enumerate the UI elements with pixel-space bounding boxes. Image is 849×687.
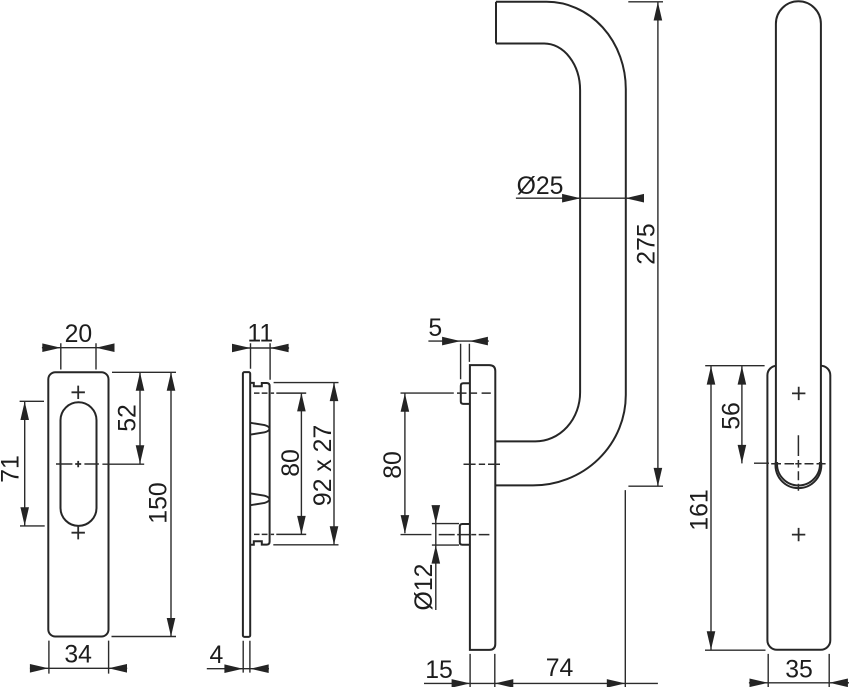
dim 150 / 52 top extension xyxy=(112,371,176,373)
svg-text:20: 20 xyxy=(65,321,93,348)
dim 161/56 top extension xyxy=(705,365,764,367)
arrows dim 34 xyxy=(30,664,49,673)
svg-text:52: 52 xyxy=(115,404,142,432)
dim 5 extension lines xyxy=(461,344,470,379)
arrows dim 275 xyxy=(654,2,663,21)
centerline tick middle (view 3) xyxy=(464,463,501,465)
svg-text:4: 4 xyxy=(210,642,224,669)
screw centerline dashes lower (view 2) xyxy=(254,533,306,535)
arrows dim 11 xyxy=(232,344,251,353)
arrows dim 161 xyxy=(707,366,716,385)
dim 34 dimension line xyxy=(30,667,127,669)
screw cross bottom (view 1) xyxy=(72,526,85,539)
dim 56 bottom extension xyxy=(754,462,769,464)
dim O25 dimension line xyxy=(516,197,643,199)
arrows dim 80 view2 xyxy=(297,393,306,412)
svg-text:74: 74 xyxy=(546,655,574,682)
inner bend arc of tube front view xyxy=(777,462,820,485)
dim 80 (view 2) dimension line xyxy=(300,393,302,535)
dim 275 top extension xyxy=(628,1,663,3)
backplate front view (view 1) xyxy=(48,372,108,636)
dim O12 tick lines xyxy=(432,524,459,546)
dim 11 dimension line xyxy=(232,347,289,349)
svg-text:Ø25: Ø25 xyxy=(517,173,564,200)
upper screw boss on handle plate xyxy=(461,383,470,404)
svg-text:5: 5 xyxy=(428,315,442,342)
screw cross bottom (view 4) xyxy=(792,528,805,541)
dim 80 (view 3) top extension xyxy=(401,392,454,394)
oval cutout in backplate xyxy=(61,402,97,526)
handle front plate (view 4) xyxy=(767,366,830,650)
arrows dim 92x27 xyxy=(330,383,339,402)
arrows dim 35 xyxy=(750,679,769,687)
svg-text:15: 15 xyxy=(425,657,453,684)
dim 80 (view 3) bottom extension xyxy=(401,534,432,536)
dim 15/74 extension lines xyxy=(470,654,495,687)
arrows dim 150 xyxy=(167,372,176,391)
arrows dim 80 view3 xyxy=(401,393,410,412)
dim 92x27 bottom extension xyxy=(273,544,338,546)
dim 150 dimension line xyxy=(170,372,172,636)
svg-text:34: 34 xyxy=(64,642,92,669)
arrows dim O25 xyxy=(562,194,581,203)
dim 35 dimension line xyxy=(749,682,849,684)
dim 4 dimension line xyxy=(207,668,269,670)
svg-text:150: 150 xyxy=(146,482,173,523)
handle tube front view (view 4) xyxy=(776,1,822,488)
arrows dim O12 xyxy=(432,505,441,524)
dim 275 dimension line xyxy=(657,2,659,486)
lower clip cone on block xyxy=(251,493,270,505)
handle tube end cap line xyxy=(495,2,497,44)
screw cross top (view 1) xyxy=(72,386,85,399)
dim O12 vertical line xyxy=(435,506,437,610)
svg-text:161: 161 xyxy=(687,489,714,530)
svg-text:56: 56 xyxy=(719,402,746,430)
svg-text:35: 35 xyxy=(785,656,813,683)
center cross of bend (view 4) xyxy=(797,435,799,491)
arrows dim 52 xyxy=(136,372,145,391)
dim 92x27 dimension line xyxy=(333,383,335,545)
handle tube inner outline (view 3) xyxy=(495,44,580,442)
dim 35 extension lines xyxy=(768,654,829,687)
arrows dim 56 xyxy=(738,366,747,385)
svg-text:Ø12: Ø12 xyxy=(411,564,438,611)
screw centerline dashes lower (view 3) xyxy=(439,534,490,536)
dim 71 dimension line xyxy=(24,402,26,526)
lower screw boss on handle plate xyxy=(460,524,470,545)
dim 20 extension lines xyxy=(61,343,96,369)
dim 20 dimension line xyxy=(42,347,113,349)
screw centerline dashes upper (view 3) xyxy=(457,392,491,394)
dim 92x27 top extension xyxy=(274,382,339,384)
arrows dim 15 xyxy=(452,679,471,687)
svg-text:275: 275 xyxy=(634,223,661,264)
arrows dim 5 xyxy=(442,337,461,346)
arrows dim 4 xyxy=(224,664,243,673)
arrows dim 71 xyxy=(20,402,29,421)
handle tube outer outline (view 3) xyxy=(495,2,626,486)
screw centerline dashes upper (view 2) xyxy=(254,392,306,394)
dim 150 bottom extension xyxy=(112,636,177,638)
mounting block of backplate side view xyxy=(250,383,269,545)
svg-text:11: 11 xyxy=(247,321,273,348)
dim 71 extension lines xyxy=(20,401,45,526)
svg-text:80: 80 xyxy=(278,449,305,477)
dim 15/74 dimension line xyxy=(424,682,658,684)
dim 80 (view 3) dimension line xyxy=(404,393,406,533)
dim 52 dimension line xyxy=(139,372,141,464)
dim 161 dimension line xyxy=(710,366,712,650)
dim 56 dimension line xyxy=(741,366,743,463)
arrow dim 74 xyxy=(607,679,626,687)
dim 5 dimension line xyxy=(428,340,488,342)
screw cross top (view 4) xyxy=(792,387,805,400)
upper clip cone on block xyxy=(251,423,270,435)
dim 161 bottom extension xyxy=(705,649,766,651)
dim 11 extension lines xyxy=(251,343,271,379)
dim 74 right extension line xyxy=(624,490,626,687)
side strip of backplate (view 2) xyxy=(243,372,250,637)
dim 34 extension lines xyxy=(49,641,109,674)
svg-text:71: 71 xyxy=(0,455,24,483)
svg-text:80: 80 xyxy=(380,451,407,479)
centerline middle (view 1) xyxy=(56,463,99,465)
handle plate side view (view 3) xyxy=(470,365,495,650)
svg-text:92 x 27: 92 x 27 xyxy=(310,425,337,506)
dim 52 lower extension xyxy=(102,463,144,465)
dim 4 extension lines xyxy=(243,641,250,673)
arrows dim 20 xyxy=(42,343,61,352)
dim 275 bottom extension xyxy=(628,485,663,487)
